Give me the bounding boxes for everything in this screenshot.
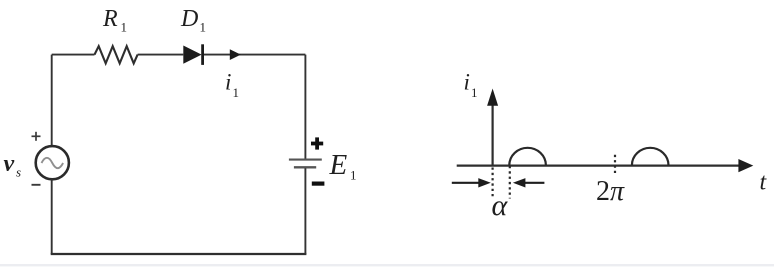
svg-text:1: 1 — [350, 168, 357, 183]
svg-text:α: α — [492, 189, 509, 222]
ac source sine wave — [42, 158, 64, 168]
wire bottom — [51, 253, 307, 255]
dotted line at alpha end — [509, 166, 511, 199]
current arrow i1 — [230, 49, 241, 60]
svg-text:1: 1 — [233, 85, 240, 100]
source minus sign — [32, 184, 41, 186]
ac source vs circle — [36, 146, 69, 179]
bottom page rule — [0, 264, 774, 266]
svg-text:1: 1 — [471, 85, 478, 100]
diode D1 — [183, 44, 202, 65]
wire right vertical upper — [304, 55, 306, 159]
svg-text:i: i — [225, 70, 231, 95]
graph horizontal axis t — [457, 159, 754, 172]
svg-text:2π: 2π — [596, 176, 625, 207]
dotted line at alpha start — [492, 168, 494, 199]
wire left vertical lower — [51, 179, 53, 254]
wire right vertical lower — [304, 168, 306, 254]
resistor R1 — [95, 46, 138, 63]
wire diode to top-right corner — [204, 54, 305, 56]
wire left vertical upper — [51, 55, 53, 146]
source plus sign — [32, 132, 41, 141]
svg-text:E: E — [329, 149, 348, 181]
2pi dotted tick — [614, 155, 616, 175]
battery plus sign — [311, 137, 323, 149]
wire between resistor and diode — [138, 54, 184, 56]
waveform hump 2 — [632, 148, 669, 165]
svg-text:D: D — [180, 6, 198, 32]
svg-text:R: R — [102, 6, 118, 32]
svg-text:1: 1 — [200, 20, 207, 35]
wire top-left segment — [52, 54, 95, 56]
graph vertical axis i1 — [487, 89, 498, 167]
alpha left arrow (pointing right) — [452, 178, 491, 187]
svg-text:v: v — [4, 151, 15, 177]
alpha right arrow (pointing left) — [513, 178, 545, 187]
svg-text:s: s — [16, 165, 21, 180]
svg-text:i: i — [464, 70, 470, 95]
svg-text:1: 1 — [121, 20, 128, 35]
battery E1 plates — [289, 160, 322, 168]
battery minus sign — [312, 182, 325, 186]
waveform hump 1 — [509, 148, 546, 166]
